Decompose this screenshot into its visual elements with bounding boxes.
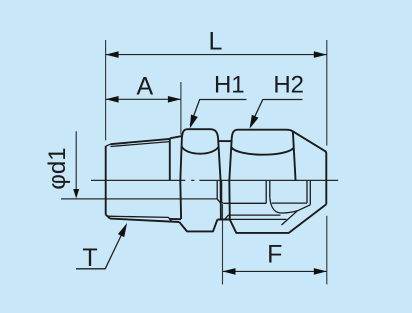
nut back inner cone: [282, 205, 311, 225]
leader T arrow: [118, 223, 127, 237]
nut H2 upper outline and right cone: [229, 130, 326, 205]
nut H2 right hex side (internal): [293, 132, 296, 181]
shoulder bottom: [170, 218, 181, 220]
leader H2 arrow: [250, 115, 259, 129]
bore step chamfer: [217, 199, 220, 202]
nut lower silhouette: back cone, flat, lip: [217, 204, 326, 233]
hex H1 chamfer arc: [182, 147, 219, 154]
dimension F arrow right: [314, 268, 327, 275]
dimension L arrow left: [106, 51, 119, 58]
thread root bottom (thin): [108, 216, 172, 220]
thread left face: [105, 146, 107, 215]
tube end vertical 1: [265, 181, 267, 203]
thread root top (thin): [111, 142, 170, 147]
hex H1 lower side stubs: [180, 180, 221, 219]
svg-text:H2: H2: [273, 71, 304, 98]
nut lip top inner line: [230, 218, 287, 220]
dimension L arrow right: [314, 51, 327, 58]
svg-text:A: A: [136, 73, 153, 101]
sleeve bowl arc: [270, 198, 298, 213]
thread bottom chamfer: [106, 215, 110, 219]
nut back vertical 2: [309, 181, 311, 205]
thread crest top: [110, 139, 169, 144]
dimension A arrow left: [106, 96, 119, 103]
tube end vertical 2 / sleeve front: [269, 181, 271, 198]
dimension F extension line right: [326, 216, 328, 285]
svg-text:T: T: [82, 244, 97, 272]
nut H2 chamfer arc: [232, 148, 294, 155]
svg-text:F: F: [267, 240, 282, 268]
dimension L line: [106, 54, 327, 56]
nut back bore line: [272, 202, 307, 204]
dimension phi-d1 arrow: [73, 189, 79, 199]
shoulder top: [170, 136, 183, 138]
neck between hexes: [219, 140, 231, 142]
nut H2 lower left side stub: [228, 180, 231, 220]
leader T: [76, 234, 122, 269]
svg-text:φd1: φd1: [44, 147, 71, 189]
counterbore line: [224, 202, 266, 204]
dimension L extension line right: [326, 40, 328, 146]
dimension phi-d1 line with down arrow: [75, 131, 77, 190]
phi-d1 extension / bore line: [61, 198, 217, 200]
leader H1: [190, 100, 246, 126]
nut back vertical 1: [306, 181, 308, 203]
centerline: [91, 179, 338, 181]
hex H1 lower section: chamfer, flat, chamfer: [179, 220, 217, 232]
dimension F arrow left: [223, 268, 236, 275]
thread tip chamfer top: [106, 144, 111, 146]
bore step vertical 2: [222, 181, 224, 203]
nut skirt inner bore line: [225, 215, 281, 219]
dimension A arrow right: [168, 96, 181, 103]
svg-text:H1: H1: [214, 71, 245, 98]
thread crest bottom: [110, 219, 179, 222]
leader H2: [251, 100, 303, 126]
dimension A line: [106, 98, 181, 100]
dimension L extension line left: [105, 40, 107, 140]
thread end vertical: [169, 139, 171, 181]
hex H1 upper outline: [180, 129, 220, 181]
leader H1 arrow: [190, 115, 198, 129]
svg-text:L: L: [208, 28, 222, 56]
thread runout bottom: [170, 219, 171, 221]
dimension F line: [223, 270, 327, 272]
dimension A extension line right: [180, 82, 182, 135]
bore step vertical 1: [216, 181, 218, 199]
dimension F extension line left: [222, 204, 224, 284]
